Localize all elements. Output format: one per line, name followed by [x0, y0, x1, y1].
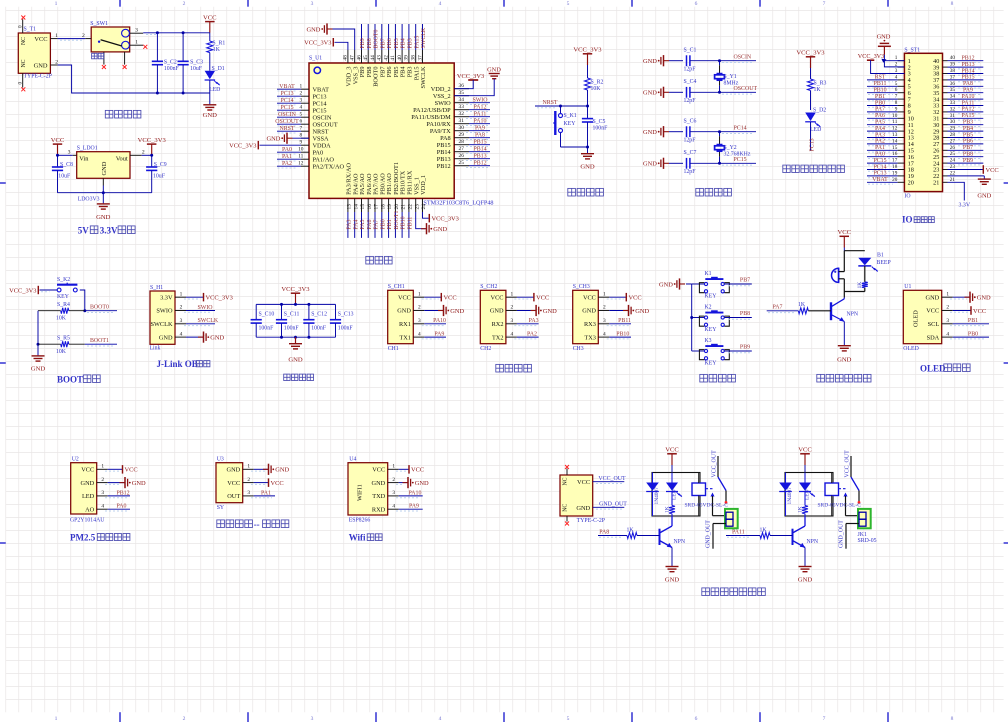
U1 pin 25 (PB12) [437, 160, 469, 170]
svg-text:24: 24 [421, 204, 427, 210]
power port GND (S_C7 side) [643, 158, 683, 169]
svg-text:S_Y2: S_Y2 [724, 145, 737, 151]
svg-text:U4: U4 [349, 457, 356, 463]
svg-text:PA4: PA4 [875, 126, 885, 132]
svg-text:5: 5 [567, 1, 570, 7]
svg-text:PB10: PB10 [616, 332, 629, 338]
svg-text:5: 5 [567, 716, 570, 722]
wire + net label PA10 [466, 118, 490, 125]
svg-text:GND: GND [227, 467, 241, 474]
svg-text:CH2: CH2 [480, 346, 491, 352]
wire + net label PB13 (ST1 right) [948, 62, 984, 69]
svg-text:PA9: PA9 [963, 88, 973, 94]
svg-text:S_C10: S_C10 [259, 311, 275, 317]
svg-text:100nF: 100nF [164, 66, 180, 72]
svg-text:4: 4 [392, 503, 395, 509]
svg-text:BOOT0: BOOT0 [90, 304, 109, 310]
svg-text:36: 36 [459, 83, 465, 89]
svg-text:1: 1 [392, 464, 395, 470]
svg-text:38: 38 [411, 55, 417, 61]
wire + net label PB13 [466, 153, 490, 160]
svg-text:PA8: PA8 [599, 530, 609, 536]
power port VCC (ST1 pin23) [948, 165, 999, 174]
no-ERC mark T2 top [565, 465, 569, 469]
svg-text:1: 1 [55, 1, 58, 7]
svg-text:22: 22 [408, 204, 414, 210]
svg-text:PB13: PB13 [437, 156, 451, 163]
ST1 pin 18 [892, 164, 914, 174]
wire + net label PB0 (ST1 left) [867, 100, 898, 107]
ground (U4.2) [396, 477, 429, 488]
U1 pin 17 (PA7/AO) [373, 173, 380, 212]
svg-text:27: 27 [459, 146, 465, 152]
title PM2.5检测模块 [70, 533, 130, 543]
connector S_CH2 body [480, 284, 517, 352]
power port GND at U1.VSS_3 [307, 23, 355, 50]
wire + net label PA10 (CH1.3) [422, 318, 446, 325]
U1 pin 32 (PA11/USB/DM) [411, 111, 469, 121]
U1 pin 19 (PB1/AO) [386, 173, 393, 212]
svg-text:S_D1: S_D1 [212, 66, 225, 72]
svg-text:1: 1 [55, 33, 58, 39]
LED (relay indicator) [666, 473, 682, 501]
wire + net label PA9 [466, 125, 490, 132]
svg-text:2: 2 [392, 477, 395, 483]
crystal Y1 (8MHz) [715, 61, 739, 93]
relay contact NO point [858, 501, 861, 504]
svg-text:SWIO: SWIO [472, 97, 488, 103]
svg-text:RXD: RXD [372, 506, 386, 513]
svg-text:TX2: TX2 [492, 334, 504, 341]
wire + net label PA8 [466, 132, 490, 139]
svg-text:GND_OUT: GND_OUT [839, 520, 845, 548]
junction S_C12 bottom [307, 336, 310, 339]
svg-text:8: 8 [951, 1, 954, 7]
svg-text:47: 47 [350, 55, 356, 61]
svg-text:VCC_3V3: VCC_3V3 [9, 288, 36, 295]
no-ERC mark top of T1 [21, 16, 25, 20]
svg-text:GND: GND [543, 308, 557, 315]
svg-text:NC: NC [21, 37, 27, 45]
svg-text:100nF: 100nF [311, 325, 327, 331]
U1 pin 37 (SWCLK) [417, 50, 427, 89]
svg-text:GND: GND [159, 334, 173, 341]
wire filter top rail [256, 303, 335, 305]
U1 pin 39 (PB3) [404, 50, 414, 77]
ST1 pin 30 [933, 119, 955, 129]
relay contact (VCC_OUT common) [845, 450, 860, 502]
svg-text:VBAT: VBAT [279, 84, 295, 90]
svg-text:29: 29 [459, 132, 465, 138]
ST1 pin 1 [895, 55, 911, 65]
svg-text:10uF: 10uF [153, 173, 166, 179]
svg-text:NPN: NPN [674, 539, 686, 545]
wire + net label VBAT (ST1 left) [867, 177, 898, 184]
svg-text:PB0: PB0 [380, 219, 386, 229]
wire + net label PB4 (top) [401, 24, 407, 50]
key K2 [692, 304, 730, 333]
wire + net label PC15 [720, 157, 757, 165]
title 复位电路 [568, 188, 576, 196]
svg-text:PA15: PA15 [414, 36, 420, 49]
power port VCC_3V3 (indicator) [796, 50, 825, 68]
ground (ST1 pin22) [948, 176, 992, 199]
svg-text:PB10: PB10 [873, 88, 886, 94]
svg-text:S_R2: S_R2 [591, 80, 604, 86]
svg-text:PC15: PC15 [313, 108, 327, 115]
svg-text:PA0: PA0 [117, 504, 127, 510]
resistor R4 [38, 302, 85, 322]
U1 pin 36 (VDD_2) [431, 83, 469, 93]
svg-text:7: 7 [823, 1, 826, 7]
svg-text:Link: Link [150, 345, 161, 351]
ground (LDO) [96, 193, 111, 221]
svg-text:PB12: PB12 [116, 490, 129, 496]
junction crystal/S_C6 [718, 130, 721, 133]
wire + net label PA6 (bottom) [367, 212, 373, 238]
svg-text:VCC: VCC [203, 15, 217, 22]
LED D1 [205, 66, 225, 93]
svg-text:S_C12: S_C12 [311, 311, 327, 317]
ST1 pin 38 [933, 68, 955, 78]
display U1 (OLED) body [903, 284, 952, 352]
MCU U1 (STM32F103C8T6 LQFP48) body [309, 56, 494, 207]
svg-text:GND: GND [582, 308, 596, 315]
svg-text:PB0: PB0 [968, 332, 978, 338]
svg-text:PA9: PA9 [475, 125, 485, 131]
U1 pin 12 (PA2/TX/AO) [298, 161, 344, 171]
svg-text:39: 39 [404, 55, 410, 61]
svg-text:16: 16 [367, 204, 373, 210]
svg-text:S_LDO1: S_LDO1 [77, 146, 98, 152]
wire + net label PA11 [466, 111, 490, 118]
ground (U3.1) [251, 464, 290, 475]
svg-text:SWIO: SWIO [156, 308, 173, 315]
sensor U2 (PM2.5) body [70, 457, 108, 524]
ST1 pin 24 [933, 158, 955, 168]
svg-text:PA6: PA6 [875, 113, 885, 119]
svg-text:PA0: PA0 [875, 152, 885, 158]
svg-text:4: 4 [946, 331, 949, 337]
capacitor C2 [152, 33, 180, 93]
wire + net label PC15 [277, 105, 301, 112]
junction S_C12 top [307, 303, 310, 306]
title 主芯片 [366, 256, 374, 264]
svg-text:S_K2: S_K2 [57, 277, 70, 283]
svg-text:STM32F103C8T6_LQFP48: STM32F103C8T6_LQFP48 [423, 200, 493, 207]
connector T1 (TYPE-C-2P) [18, 19, 59, 87]
svg-text:12: 12 [298, 161, 304, 167]
svg-text:SWIO: SWIO [198, 305, 214, 311]
ground (filter) [288, 337, 303, 363]
power port GND (S_C6 side) [643, 126, 683, 137]
transistor Q1 (NPN) [831, 298, 859, 322]
wire + net label PC15 (ST1 left) [867, 158, 898, 165]
svg-text:PA3: PA3 [529, 318, 539, 324]
svg-text:RX1: RX1 [399, 321, 411, 328]
svg-text:PB6: PB6 [963, 139, 973, 145]
svg-text:PA2: PA2 [282, 161, 292, 167]
svg-text:GND_OUT: GND_OUT [599, 502, 627, 508]
junction C3 top [182, 31, 185, 34]
svg-text:SCL: SCL [928, 321, 940, 328]
ST1 pin 40 [933, 55, 955, 65]
ground (relay driver) [665, 567, 680, 584]
svg-text:PB5: PB5 [963, 132, 973, 138]
svg-text:GND: GND [977, 192, 991, 199]
svg-text:VCC_3V3: VCC_3V3 [796, 50, 825, 57]
svg-text:KEY: KEY [705, 327, 718, 333]
power port VCC_3V3 (LDO out) [138, 137, 167, 155]
wire + net label PB15 (ST1 right) [948, 75, 984, 82]
svg-text:6: 6 [695, 1, 698, 7]
svg-text:PA12: PA12 [962, 107, 975, 113]
wire + net label SWCLK (H1.3) [184, 318, 219, 325]
connector S_CH3 body [573, 284, 610, 352]
U1 pin 46 (PB9) [356, 50, 366, 77]
svg-text:PB0: PB0 [875, 100, 885, 106]
power port VCC_3V3 (BOOT) [9, 286, 38, 295]
capacitor S_C1 [684, 48, 720, 73]
svg-text:GND: GND [415, 480, 429, 487]
title 声音检测--模拟量 [217, 520, 289, 530]
svg-text:VCC_3V3: VCC_3V3 [281, 286, 310, 293]
svg-text:KEY: KEY [705, 294, 718, 300]
svg-text:35: 35 [459, 90, 465, 96]
wire GND rail (power circuit) [58, 65, 210, 93]
svg-text:GND: GND [288, 357, 303, 364]
svg-text:PB14: PB14 [437, 149, 452, 156]
wire + net label PB14 (ST1 right) [948, 68, 984, 75]
wire + net label OSCOUT [275, 119, 301, 126]
ST1 pin 8 [895, 100, 911, 110]
wire GND_OUT (terminal) [839, 520, 860, 549]
U1 pin 18 (PB0/AO) [379, 173, 386, 212]
power port GND at U1.VSSA [267, 133, 309, 144]
svg-text:LED: LED [82, 493, 95, 500]
svg-text:3: 3 [135, 28, 138, 34]
svg-text:6: 6 [299, 119, 302, 125]
wire + net label PA1 (U3.3) [251, 490, 275, 497]
svg-text:1: 1 [135, 40, 138, 46]
svg-text:S_CH3: S_CH3 [573, 284, 590, 290]
svg-text:GND: GND [34, 62, 48, 69]
svg-text:PC13: PC13 [280, 91, 293, 97]
capacitor C9 [146, 155, 167, 192]
header ST1 (IO) body [904, 47, 942, 199]
U1 pin 40 (PB4) [397, 50, 407, 77]
ground (reset) [580, 147, 595, 171]
svg-text:PA10: PA10 [433, 318, 446, 324]
relay coil loop frame [785, 473, 833, 517]
ST1 pin 28 [933, 132, 955, 142]
svg-text:40: 40 [397, 55, 403, 61]
svg-text:S_C13: S_C13 [338, 311, 354, 317]
svg-text:100nF: 100nF [284, 325, 300, 331]
svg-text:GND: GND [837, 357, 852, 364]
svg-text:S_C2: S_C2 [164, 59, 177, 65]
wire + net label PB14 [466, 146, 490, 153]
wire + net label PB10 (bottom) [401, 212, 407, 238]
transistor Q (NPN relay driver) [793, 516, 819, 548]
svg-text:2: 2 [183, 1, 186, 7]
ST1 pin 33 [933, 100, 955, 110]
U1 pin 2 (PC13) [299, 91, 326, 101]
svg-text:K3: K3 [705, 338, 712, 344]
svg-text:21: 21 [933, 180, 939, 187]
wire + net label PA7 + resistor 1K (base) [767, 302, 831, 314]
ST1 pin 31 [933, 113, 955, 123]
svg-text:PC14: PC14 [313, 101, 328, 108]
svg-text:S_C6: S_C6 [684, 119, 697, 125]
svg-text:GND: GND [96, 214, 111, 221]
svg-text:4: 4 [418, 331, 421, 337]
svg-text:42: 42 [383, 55, 389, 61]
ST1 pin 37 [933, 74, 955, 84]
svg-text:18: 18 [380, 204, 386, 210]
svg-text:100nF: 100nF [593, 126, 609, 132]
svg-text:GND: GND [31, 366, 46, 373]
title 继电器控制电路 [702, 588, 710, 596]
svg-text:SRD-05VDC-SL-C: SRD-05VDC-SL-C [818, 502, 862, 508]
svg-text:VDDA: VDDA [313, 143, 332, 150]
svg-text:S_C3: S_C3 [190, 59, 203, 65]
svg-text:PC15: PC15 [280, 105, 293, 111]
svg-text:1N4007: 1N4007 [787, 487, 793, 505]
ground (CH3.2) [609, 305, 649, 316]
svg-text:KEY: KEY [57, 294, 70, 300]
wire + net label PB7 (top) [380, 24, 386, 50]
svg-text:VCC_OUT: VCC_OUT [598, 476, 626, 482]
svg-text:1: 1 [55, 716, 58, 722]
svg-text:VDD_1: VDD_1 [420, 175, 427, 195]
svg-text:GND: GND [267, 136, 281, 143]
wire GND_OUT (terminal) [706, 520, 727, 549]
svg-text:S_CH2: S_CH2 [480, 284, 497, 290]
svg-text:PC14: PC14 [734, 126, 747, 132]
svg-text:4: 4 [439, 1, 442, 7]
U1 pin 45 (PB8) [363, 50, 373, 77]
svg-text:BOOT0: BOOT0 [374, 29, 380, 48]
svg-text:CH3: CH3 [573, 346, 584, 352]
svg-text:PA7: PA7 [875, 107, 885, 113]
sensor U3 (sound) body [216, 457, 254, 511]
svg-text:34: 34 [459, 97, 465, 103]
no-ERC mark bottom of T1 [21, 87, 25, 91]
ST1 pin 17 [892, 158, 914, 168]
wire + net label PB6 (top) [387, 24, 393, 50]
svg-text:PB14: PB14 [473, 146, 486, 152]
svg-text:GND: GND [576, 505, 590, 512]
svg-text:4: 4 [180, 331, 183, 337]
wire + net label PA3 (bottom) [347, 212, 353, 238]
U1 pin 28 (PB15) [437, 139, 469, 149]
svg-text:PC13: PC13 [873, 171, 886, 177]
svg-text:20: 20 [908, 180, 914, 187]
svg-text:4: 4 [603, 331, 606, 337]
U1 pin 10 (PA0) [298, 147, 323, 157]
ground (OLED.1) [950, 292, 991, 303]
svg-text:PB11: PB11 [408, 217, 414, 230]
capacitor C3 [178, 33, 204, 93]
svg-text:LED: LED [209, 87, 220, 93]
svg-text:PC15: PC15 [734, 157, 747, 163]
wire LDO1.Vout to VCC_3V3 [142, 154, 152, 156]
svg-text:S_C4: S_C4 [684, 79, 697, 85]
svg-text:1: 1 [603, 291, 606, 297]
junction S_C11 top [280, 303, 283, 306]
svg-text:GND: GND [643, 90, 657, 97]
svg-text:PB8: PB8 [963, 152, 973, 158]
svg-text:OSCIN: OSCIN [313, 115, 332, 122]
svg-text:PA1/AO: PA1/AO [313, 157, 335, 164]
svg-text:NRST: NRST [542, 100, 557, 106]
LED D2 [805, 108, 826, 133]
svg-text:VCC_3V3: VCC_3V3 [573, 47, 602, 54]
U1 pin 16 (PA6/AO) [366, 173, 373, 212]
power port VCC (U4.1) [396, 465, 424, 474]
svg-text:1: 1 [418, 291, 421, 297]
svg-text:VBAT: VBAT [872, 177, 888, 183]
svg-text:K1: K1 [705, 271, 712, 277]
title 程序运行指示灯 [783, 165, 790, 172]
svg-text:PA3: PA3 [347, 220, 353, 230]
no-ERC mark SW1 pad A [102, 65, 106, 69]
wire + net label PA10 (ST1 right) [948, 94, 984, 101]
svg-text:OSCIN: OSCIN [278, 112, 296, 118]
svg-text:VCC: VCC [411, 467, 424, 474]
connector T2 (TYPE-C-2P relay supply) [560, 469, 605, 524]
wire + net label RST (ST1 left) [867, 75, 898, 82]
svg-text:GND: GND [665, 577, 680, 584]
svg-text:PB15: PB15 [437, 142, 451, 149]
svg-text:VCC: VCC [798, 447, 812, 454]
svg-text:3: 3 [247, 490, 250, 496]
svg-text:21: 21 [401, 204, 407, 210]
power port VCC (OLED.2) [950, 306, 986, 315]
wire filter bottom rail [256, 336, 335, 338]
ST1 pin 25 [933, 151, 955, 161]
wire + net label PB0 (bottom) [380, 212, 386, 238]
U1 pin 47 (VSS_3) [350, 50, 360, 84]
wire + net label PA5 (ST1 left) [867, 120, 898, 127]
junction C3 bottom [182, 92, 185, 95]
ground (U2.2) [105, 477, 146, 488]
junction C9 top [150, 154, 153, 157]
capacitor S_C12 [303, 304, 327, 337]
svg-text:7: 7 [299, 126, 302, 132]
svg-text:4: 4 [299, 105, 302, 111]
svg-text:GND: GND [635, 308, 649, 315]
ST1 pin 11 [892, 119, 913, 129]
wire + net label PA7 (ST1 left) [867, 107, 898, 114]
wire + net label PA4 (bottom) [353, 212, 359, 238]
U1 pin 6 (OSCOUT) [299, 119, 337, 129]
svg-text:S_R5: S_R5 [57, 336, 70, 342]
svg-text:PA8: PA8 [963, 81, 973, 87]
svg-text:VCC_3V3: VCC_3V3 [206, 295, 233, 302]
svg-text:VCC_3V3: VCC_3V3 [229, 142, 256, 149]
svg-text:KEY: KEY [564, 121, 577, 127]
svg-text:PC14: PC14 [873, 164, 886, 170]
svg-text:SY: SY [217, 505, 225, 511]
svg-text:VCC_3V3: VCC_3V3 [304, 40, 331, 47]
svg-text:PC15: PC15 [873, 158, 886, 164]
svg-text:VCC: VCC [51, 137, 65, 144]
svg-text:PA5: PA5 [360, 220, 366, 230]
no-ERC mark SW1 pad B [123, 65, 127, 69]
U1 pin 38 (PA15) [411, 50, 421, 80]
